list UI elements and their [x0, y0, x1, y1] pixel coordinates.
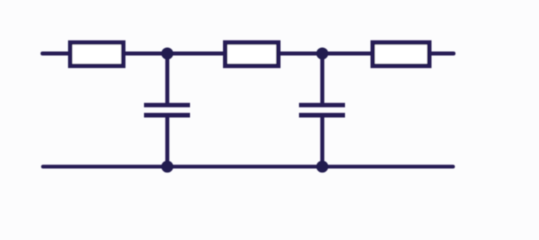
node junction bottom-left — [161, 161, 173, 173]
capacitor C1 — [144, 105, 190, 115]
resistor R1 — [70, 43, 123, 66]
wire C2 lower lead — [320, 118, 324, 167]
capacitor C2 — [299, 105, 345, 115]
node junction top-right — [316, 48, 328, 60]
resistor R2 — [225, 43, 278, 66]
node junction top-left — [161, 48, 173, 60]
wire C2 upper lead — [320, 54, 324, 104]
wire bottom rail — [43, 165, 453, 169]
wire top rail — [43, 52, 454, 56]
wire C1 upper lead — [165, 54, 169, 104]
node junction bottom-right — [316, 161, 328, 173]
resistor R3 — [373, 43, 430, 66]
wire C1 lower lead — [165, 118, 169, 167]
